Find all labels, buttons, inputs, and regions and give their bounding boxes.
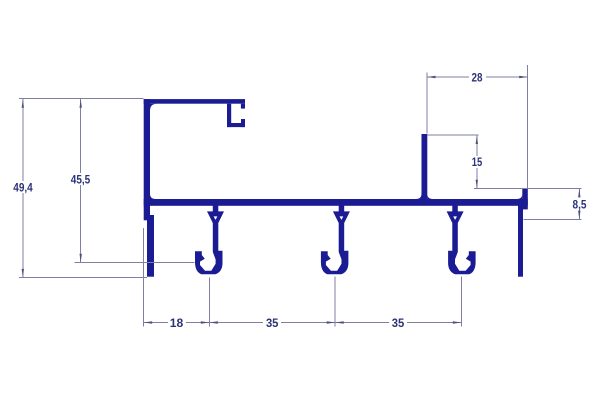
dim line 8,5 bbox=[578, 189, 580, 220]
svg-text:49,4: 49,4 bbox=[13, 181, 33, 195]
hook 2 bbox=[321, 206, 350, 275]
dim line 45,5 bbox=[80, 99, 82, 262]
arrow 45,5 up bbox=[80, 99, 82, 108]
dim line bottom bbox=[144, 322, 462, 324]
arrows at hook1 witness bbox=[201, 321, 210, 323]
upper right wall bbox=[422, 134, 428, 199]
dim line 28 bbox=[427, 76, 528, 78]
svg-text:8,5: 8,5 bbox=[573, 198, 587, 212]
arrow 45,5 down bbox=[80, 254, 82, 262]
label 49,4 bbox=[11, 181, 35, 193]
label 35 b bbox=[389, 317, 407, 329]
witness line left leg bbox=[143, 228, 145, 327]
arrow 49,4 down bbox=[22, 269, 24, 278]
profile left wall bbox=[144, 99, 150, 220]
label 35 a bbox=[263, 317, 281, 329]
arrow 35b right bbox=[453, 321, 462, 323]
profile base bbox=[144, 199, 528, 206]
arrow 18 left bbox=[144, 321, 153, 323]
arrow 15 up bbox=[476, 136, 478, 145]
C-clip stem bbox=[227, 104, 231, 127]
ext line 49,4 bottom bbox=[19, 277, 147, 279]
svg-text:18: 18 bbox=[170, 316, 184, 330]
svg-text:45,5: 45,5 bbox=[71, 173, 91, 187]
ext line 8,5 bottom bbox=[523, 218, 581, 220]
label 45,5 bbox=[68, 173, 93, 185]
ext line 15 top bbox=[427, 134, 478, 136]
ext line top left bbox=[19, 98, 144, 100]
profile top bar bbox=[144, 99, 245, 104]
upper right wall left fillet bbox=[416, 194, 422, 200]
label 18 bbox=[168, 317, 186, 329]
base fillet right of left wall bbox=[150, 194, 156, 200]
svg-text:15: 15 bbox=[472, 155, 483, 169]
ext line 28 left bbox=[426, 73, 428, 134]
ext line 28 right bbox=[527, 65, 529, 189]
left leg bbox=[147, 215, 154, 277]
C-clip bottom lip bbox=[241, 119, 245, 127]
witness line hook 1 bbox=[208, 278, 210, 327]
label 15 bbox=[469, 156, 486, 168]
hook 1 bbox=[195, 206, 224, 275]
top bar inner fillet bbox=[150, 104, 157, 111]
dim line 15 bbox=[476, 135, 478, 189]
arrows at hook2 witness bbox=[327, 321, 336, 323]
arrow 15 down bbox=[476, 180, 478, 189]
upper right wall right fillet bbox=[427, 194, 433, 200]
witness line hook 2 bbox=[334, 277, 336, 327]
witness line hook 3 bbox=[460, 277, 462, 327]
arrow 8,5 up bbox=[578, 189, 580, 198]
riser left fillet bbox=[517, 194, 523, 200]
svg-text:28: 28 bbox=[472, 71, 483, 85]
arrow 28 right bbox=[519, 76, 528, 78]
label 8,5 bbox=[569, 198, 590, 210]
arrow 49,4 up bbox=[22, 99, 24, 108]
right riser bbox=[522, 189, 528, 210]
arrow 8,5 down bbox=[578, 211, 580, 220]
dim line 49,4 bbox=[22, 99, 24, 277]
svg-text:35: 35 bbox=[392, 316, 405, 330]
C-clip bottom bar bbox=[227, 123, 245, 127]
ext line 45,5 bottom bbox=[75, 261, 195, 263]
svg-text:35: 35 bbox=[266, 316, 279, 330]
label 28 bbox=[469, 71, 486, 83]
hook 3 bbox=[447, 206, 476, 275]
right leg bbox=[518, 206, 523, 277]
ext line 15/8,5 shared bbox=[474, 188, 582, 190]
C-clip top lip bbox=[241, 104, 245, 109]
arrow 28 left bbox=[427, 76, 436, 78]
